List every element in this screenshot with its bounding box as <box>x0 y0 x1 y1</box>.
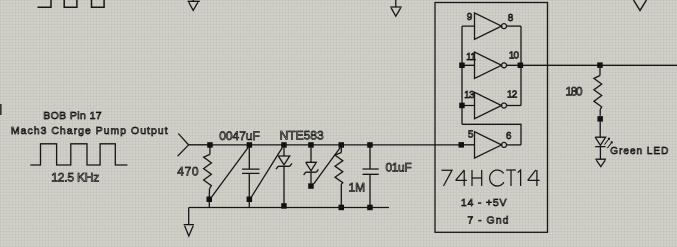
ground (top right, cropped) <box>634 0 647 11</box>
diagonal wire from D2 bottom to 1M top <box>314 148 341 184</box>
svg-text:180: 180 <box>566 86 583 98</box>
node: gate B output junction <box>518 63 524 69</box>
svg-text:Green LED: Green LED <box>610 146 669 157</box>
node: junction at C2 top <box>367 142 373 148</box>
wire: rail to ground <box>188 208 190 225</box>
ground (top, x=193) <box>188 0 200 10</box>
ground (bottom left) <box>184 225 194 236</box>
label: 74HCT14 <box>442 170 540 186</box>
node: C2 bottom junction <box>367 205 373 211</box>
svg-text:BOB Pin 17: BOB Pin 17 <box>43 110 102 122</box>
node: gate C input junction <box>459 103 465 109</box>
svg-text:470: 470 <box>177 165 199 179</box>
inverter gate U1C (13 -> 12) <box>462 92 521 118</box>
label: BOB Pin 17 <box>43 110 102 122</box>
label: 14 - +5V <box>461 197 507 209</box>
svg-text:Mach3 Charge Pump Output: Mach3 Charge Pump Output <box>11 125 169 137</box>
pin label 6 <box>506 131 512 142</box>
inverter gate U1B (11 -> 10) <box>462 52 677 78</box>
pin label 12 <box>507 89 518 100</box>
svg-text:6: 6 <box>506 131 512 142</box>
svg-text:10: 10 <box>509 51 520 62</box>
pin label 5 <box>468 130 474 141</box>
svg-text:01uF: 01uF <box>386 161 412 175</box>
ground (top middle, x=396) <box>390 0 402 16</box>
svg-text:7 - Gnd: 7 - Gnd <box>467 214 509 226</box>
pin label 13 <box>464 90 475 101</box>
label: 180 <box>566 86 583 98</box>
wire: bottom ground rail <box>189 207 389 209</box>
inverter gate U1A (9 -> 8) <box>462 13 521 39</box>
pin label 9 <box>467 12 473 23</box>
square wave symbol 12.5 kHz <box>30 144 127 165</box>
wire: input chain vertical (pins 9,11,13) <box>461 26 463 124</box>
node: junction at D2 top <box>308 142 314 148</box>
ground (below LED) <box>595 159 606 166</box>
node: junction at 470 top <box>207 142 213 148</box>
node: junction at C1 top <box>247 142 253 148</box>
diagonal wire from C1 bottom to D1 top <box>252 148 283 197</box>
input arrow <box>178 134 207 157</box>
label: 12.5 KHz <box>51 170 99 184</box>
label: 01uF <box>386 161 412 175</box>
inverter gate U1D (5 -> 6) <box>462 132 521 158</box>
resistor R2 1M <box>335 148 343 208</box>
label: Mach3 Charge Pump Output <box>11 125 169 137</box>
LED D3 <box>595 122 605 159</box>
svg-text:1M: 1M <box>349 180 366 194</box>
IC U1 74HCT14 box <box>435 3 548 233</box>
resistor R3 180 <box>594 68 603 122</box>
wire: top rail (input node to pin 5) <box>189 144 475 146</box>
pin label 11 <box>466 52 476 63</box>
svg-text:5: 5 <box>468 130 474 141</box>
scan artifact left edge <box>0 104 2 115</box>
diode D2 (zener) <box>304 148 319 189</box>
label: 7 - Gnd <box>467 214 509 226</box>
diode D1 NTE583 (zener) <box>276 148 292 209</box>
square wave (top left, cropped) <box>38 0 105 7</box>
pin label 8 <box>508 13 514 24</box>
diagonal wire from R1 bottom to C1 top <box>212 148 248 197</box>
svg-text:12.5 KHz: 12.5 KHz <box>51 170 99 184</box>
label: 470 <box>177 165 199 179</box>
LED light arrows <box>605 138 613 148</box>
label: 0047uF <box>219 129 260 143</box>
resistor R1 470 <box>204 148 212 208</box>
wire: output chain vertical (pins 8,10,12) <box>520 26 522 105</box>
node: gate D input junction <box>459 142 465 148</box>
svg-text:NTE583: NTE583 <box>280 129 324 143</box>
node: junction at 180 top <box>597 62 603 68</box>
svg-text:9: 9 <box>467 12 473 23</box>
svg-text:0047uF: 0047uF <box>219 129 260 143</box>
pin label 10 <box>509 51 520 62</box>
label: NTE583 <box>280 129 324 143</box>
svg-text:8: 8 <box>508 13 514 24</box>
capacitor C2 01uF <box>363 148 379 208</box>
svg-text:14 - +5V: 14 - +5V <box>461 197 507 209</box>
label: Green LED <box>610 146 669 157</box>
node: gate B input junction <box>459 63 465 69</box>
svg-text:12: 12 <box>507 89 518 100</box>
node: junction at 1M top <box>339 142 345 148</box>
svg-text:13: 13 <box>464 90 475 101</box>
svg-text:11: 11 <box>466 52 476 63</box>
node: junction at D1 top <box>281 142 287 148</box>
label: 1M <box>349 180 366 194</box>
node: 1M bottom junction <box>339 205 345 211</box>
capacitor C1 0047uF <box>242 148 260 208</box>
wire: crossover from input chain to pin 6 <box>462 124 521 145</box>
